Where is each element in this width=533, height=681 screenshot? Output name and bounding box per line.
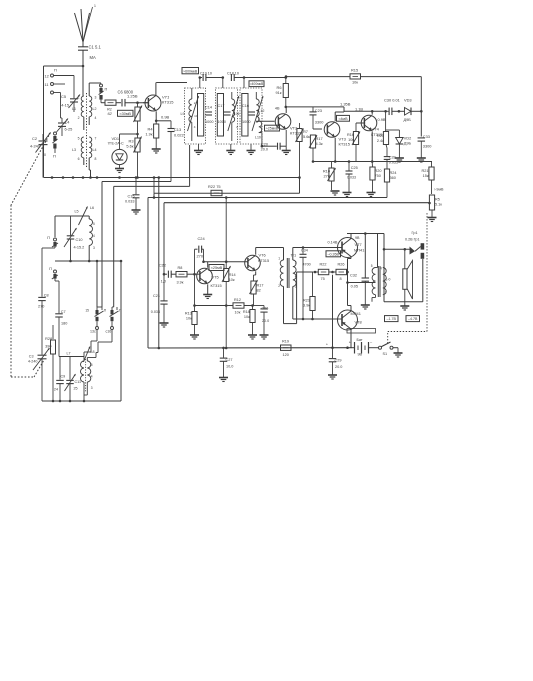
- svg-text:2: 2: [236, 125, 238, 129]
- wire line C y=202.7 (supply): [164, 203, 430, 275]
- svg-text:L4: L4: [93, 148, 97, 152]
- svg-text:R24: R24: [390, 171, 397, 175]
- svg-text:C1 5.1: C1 5.1: [89, 45, 102, 50]
- transistor VT5 KT315: [195, 268, 222, 288]
- svg-text:≈400мкВ: ≈400мкВ: [250, 82, 264, 86]
- measurement label -0.26V: [326, 241, 341, 257]
- svg-text:270: 270: [324, 174, 331, 179]
- svg-text:VT7: VT7: [355, 242, 362, 247]
- resistor R2 (AGC): [134, 103, 143, 134]
- svg-text:4-15.2: 4-15.2: [74, 246, 85, 250]
- svg-text:3: 3: [385, 291, 387, 295]
- band switch contact 15P: [84, 307, 107, 357]
- svg-text:3: 3: [93, 246, 95, 250]
- svg-text:10,0: 10,0: [226, 365, 233, 369]
- ferrite rod core (dotted): [86, 93, 88, 168]
- svg-text:1: 1: [94, 4, 96, 8]
- svg-text:C22: C22: [159, 263, 166, 268]
- svg-text:1000: 1000: [242, 120, 250, 124]
- capacitor C13 0.022: [168, 121, 184, 182]
- svg-text:20.0: 20.0: [261, 148, 268, 152]
- band switch contact 2 (lower): [49, 267, 59, 308]
- transformer Tr2 primary: [371, 264, 382, 295]
- IF transformer T1 winding L9: [181, 92, 199, 141]
- svg-text:1.35В: 1.35В: [340, 102, 351, 107]
- svg-text:0.9В: 0.9В: [378, 117, 386, 122]
- wire bottom supply rail y=347.7: [148, 346, 352, 349]
- svg-text:C3: C3: [29, 355, 34, 359]
- svg-text:C11: C11: [75, 380, 82, 384]
- inductor L1 (pins 1-2): [72, 50, 84, 130]
- transformer Tr2 core: [378, 266, 380, 297]
- wire line y=186.4 (band feed 2): [114, 145, 190, 307]
- wire AGC line A y=193.3: [154, 176, 301, 197]
- node antenna junction: [82, 65, 85, 68]
- svg-text:5: 5: [295, 261, 297, 265]
- wire Tr2 connections: [372, 234, 378, 302]
- svg-text:L10: L10: [255, 136, 261, 140]
- svg-text:10к: 10к: [244, 315, 250, 319]
- svg-text:4700: 4700: [303, 263, 311, 267]
- band switch contact (osc): [42, 236, 58, 295]
- svg-text:L6: L6: [90, 206, 94, 210]
- wire line B y=197.5: [148, 198, 387, 349]
- resistor R24 360: [384, 169, 396, 198]
- capacitor C19 10 (coupling): [200, 72, 223, 82]
- svg-text:4-240: 4-240: [28, 360, 37, 364]
- svg-text:≈4мВ: ≈4мВ: [338, 117, 348, 121]
- capacitor C28 0.033 (detector out): [371, 156, 398, 169]
- svg-text:VT8: VT8: [355, 320, 362, 325]
- svg-text:10к: 10к: [348, 138, 354, 142]
- svg-text:3: 3: [95, 96, 97, 100]
- capacitor C20 20.0 (emitter bypass): [261, 143, 287, 152]
- trimmer capacitor C10 4-15.2: [64, 216, 84, 261]
- node detector out: [420, 110, 423, 113]
- svg-text:R19: R19: [282, 340, 289, 344]
- resistor R23 2.4k: [377, 111, 389, 155]
- wire VT3 collector: [335, 112, 344, 121]
- capacitor C7 180: [55, 308, 67, 357]
- node VT5 collector: [202, 260, 247, 267]
- resistor R10 270: [323, 162, 340, 196]
- svg-text:R21: R21: [422, 169, 429, 173]
- svg-text:R18: R18: [243, 310, 250, 314]
- svg-text:Д9Б: Д9Б: [404, 117, 412, 122]
- switch S1: [370, 342, 403, 357]
- transformer Tr1 core: [287, 258, 289, 288]
- pin 11 (П connector): [45, 82, 66, 87]
- svg-text:L7: L7: [67, 352, 71, 356]
- svg-text:R15: R15: [351, 67, 358, 72]
- transformer Tr1 primary: [278, 253, 296, 289]
- svg-text:КТ315: КТ315: [162, 100, 174, 105]
- wire gang dashed link: [11, 133, 51, 378]
- wire Tr1 sec5 to VT7 base: [293, 248, 342, 261]
- svg-text:1-0: 1-0: [386, 278, 391, 282]
- svg-text:R22: R22: [320, 263, 327, 267]
- capacitor C6 6800: [118, 90, 149, 107]
- wire T1 top to C19: [192, 76, 201, 92]
- resistor R28 390: [45, 325, 55, 401]
- node VT3 base / R17: [313, 128, 322, 130]
- svg-text:C21: C21: [153, 294, 160, 298]
- wire oscillator bottom bus y=401: [42, 261, 121, 402]
- wire VT1 collector: [156, 83, 187, 96]
- svg-text:270: 270: [197, 254, 204, 259]
- IF transformer T1 core: [198, 94, 204, 137]
- wire speaker loop: [383, 234, 423, 302]
- wire R15 down: [420, 77, 422, 112]
- svg-text:5: 5: [93, 222, 95, 226]
- svg-text:C23: C23: [315, 108, 322, 113]
- resistor R22 75 (line A): [208, 184, 222, 196]
- wire bias node to supply rail: [332, 275, 334, 348]
- svg-text:VD2: VD2: [404, 137, 411, 141]
- svg-text:2: 2: [278, 284, 280, 288]
- svg-text:360: 360: [390, 176, 396, 180]
- svg-text:4.3к: 4.3к: [316, 141, 323, 146]
- transistor VT8 MP41 (PNP): [338, 310, 362, 330]
- svg-text:13с: 13с: [90, 330, 96, 334]
- svg-text:МП41: МП41: [351, 311, 361, 316]
- wire L10 to VT2 base: [256, 120, 275, 122]
- svg-text:VD1: VD1: [112, 136, 120, 141]
- svg-text:⊦9мВ: ⊦9мВ: [435, 188, 445, 192]
- node T2 top: [222, 76, 225, 88]
- capacitor C14 1000: [205, 106, 213, 125]
- resistor R18 10k: [243, 306, 257, 340]
- inductor L7 (osc coil 2): [59, 347, 95, 363]
- svg-text:15к: 15к: [423, 174, 429, 178]
- svg-text:C16: C16: [242, 104, 249, 108]
- coupling winding L10: [255, 118, 262, 146]
- svg-text:C19 10: C19 10: [200, 72, 212, 76]
- svg-text:L5: L5: [75, 210, 79, 214]
- capacitor C30 0.01: [384, 98, 400, 116]
- connector X1 (phone jack): [410, 243, 425, 302]
- svg-text:П: П: [54, 68, 57, 73]
- svg-text:C7: C7: [61, 310, 66, 314]
- measurement label -1.7V: [385, 316, 399, 322]
- svg-text:5.1к: 5.1к: [435, 203, 442, 207]
- resistor R7 5.6k (AGC trimmer): [296, 123, 311, 178]
- ground T3: [247, 144, 256, 155]
- wire ground rail y=161.5: [313, 161, 432, 163]
- wire VT2 collector to VT3 collector: [313, 102, 351, 113]
- svg-text:3300: 3300: [315, 120, 324, 125]
- measurement label 600uV: [182, 68, 199, 74]
- svg-text:20.0: 20.0: [262, 319, 269, 323]
- svg-text:10к: 10к: [186, 317, 192, 321]
- svg-text:C10: C10: [76, 238, 83, 242]
- svg-text:КТ315: КТ315: [258, 258, 269, 263]
- ground speaker: [400, 302, 409, 310]
- svg-text:L9: L9: [181, 112, 185, 116]
- wire bias row y=272: [297, 271, 314, 273]
- svg-text:0.033: 0.033: [389, 161, 398, 165]
- svg-text:–0.26В: –0.26В: [328, 252, 340, 256]
- svg-text:≈600мкВ: ≈600мкВ: [183, 69, 198, 73]
- svg-text:4: 4: [95, 116, 97, 120]
- capacitor C18 10 (coupling): [227, 72, 286, 82]
- ground T2: [226, 144, 235, 155]
- wire feedback y=305.5: [195, 304, 234, 307]
- svg-text:–1.7В: –1.7В: [387, 317, 397, 321]
- resistor R17a 82 (VT6 emitter): [250, 271, 264, 305]
- resistor R26 8.2 (bias): [331, 263, 349, 282]
- svg-text:3.9к: 3.9к: [303, 304, 310, 308]
- svg-text:C30 0.01: C30 0.01: [384, 98, 400, 103]
- svg-text:C4: C4: [65, 120, 71, 125]
- measurement label 25uV: [265, 125, 280, 131]
- svg-text:≈25мВ: ≈25мВ: [211, 266, 223, 270]
- inductor L8 winding: [84, 353, 98, 396]
- svg-text:2: 2: [78, 116, 80, 120]
- resistor R3 5.6k: [126, 134, 141, 179]
- svg-text:1: 1: [278, 257, 280, 261]
- svg-text:120: 120: [283, 353, 289, 357]
- wire VT4 collector node: [344, 110, 387, 115]
- svg-text:75: 75: [321, 277, 325, 281]
- svg-text:3.9к: 3.9к: [177, 281, 184, 285]
- svg-text:4: 4: [93, 234, 95, 238]
- svg-text:C5: C5: [61, 94, 66, 99]
- band switch contact (L2 out): [99, 84, 108, 103]
- svg-text:25: 25: [74, 387, 78, 391]
- node VD3 in: [398, 110, 401, 113]
- svg-text:390: 390: [45, 345, 51, 349]
- wire VT4 emitter: [371, 131, 373, 161]
- inductor L3 (pins 5-6): [72, 137, 84, 166]
- svg-text:C32: C32: [350, 274, 357, 278]
- svg-text:MA: MA: [90, 55, 96, 60]
- svg-text:R16: R16: [347, 133, 354, 137]
- wire VT8 emitter/collector: [348, 302, 352, 348]
- svg-text:R8: R8: [178, 266, 183, 270]
- svg-text:C15: C15: [128, 195, 135, 199]
- svg-text:C33: C33: [423, 134, 430, 139]
- svg-text:C8: C8: [44, 294, 49, 298]
- svg-text:R17: R17: [257, 284, 264, 288]
- svg-text:R5: R5: [435, 198, 440, 202]
- capacitor C16 1000: [242, 104, 255, 124]
- svg-text:10к: 10к: [229, 278, 235, 282]
- svg-text:≈30мВ: ≈30мВ: [120, 112, 132, 116]
- inductor L6 winding: [89, 216, 95, 261]
- svg-text:1000: 1000: [218, 120, 226, 124]
- svg-text:10к: 10к: [352, 80, 358, 85]
- svg-text:R13: R13: [185, 312, 192, 316]
- wire RF box left edge: [43, 66, 45, 178]
- svg-text:L1: L1: [72, 107, 76, 111]
- svg-text:11: 11: [45, 82, 49, 87]
- svg-text:5: 5: [371, 264, 373, 268]
- svg-text:R22 75: R22 75: [208, 184, 221, 189]
- measurement label 400uV: [249, 81, 264, 87]
- trimmer capacitor C5 4-15: [61, 92, 80, 112]
- svg-text:C20: C20: [261, 143, 268, 147]
- svg-text:1.25В: 1.25В: [127, 94, 138, 99]
- svg-text:82: 82: [257, 289, 261, 293]
- svg-text:C34: C34: [301, 249, 308, 253]
- inductor L5 (osc top): [55, 206, 94, 237]
- svg-text:1000: 1000: [205, 120, 213, 124]
- svg-text:≈25мкВ: ≈25мкВ: [266, 127, 279, 131]
- capacitor C26 20.0: [253, 306, 270, 340]
- trimmer capacitor C4 6-25: [57, 118, 73, 136]
- resistor R19 120: [281, 340, 292, 358]
- svg-text:R26: R26: [338, 263, 345, 267]
- variable capacitor C2 4-240: [30, 133, 51, 178]
- wire VT7 emitter node: [348, 257, 352, 302]
- node T3 top: [243, 76, 246, 88]
- svg-text:R14: R14: [229, 273, 236, 277]
- wire VT7 collector to top rail: [347, 232, 384, 238]
- IF transformer T2 core: [217, 94, 223, 137]
- svg-text:Tr1: Tr1: [291, 253, 297, 258]
- wire VT1 emitter / node: [155, 111, 171, 122]
- IF transformer T1 shield (dashed): [185, 88, 206, 144]
- svg-text:6-25: 6-25: [65, 127, 73, 132]
- svg-text:15: 15: [85, 309, 89, 313]
- svg-text:–4.7В: –4.7В: [408, 317, 418, 321]
- wire VT8 base row y=319: [293, 286, 342, 320]
- svg-text:C18 10: C18 10: [227, 72, 239, 76]
- capacitor C8 270: [38, 294, 49, 342]
- svg-text:с16: с16: [106, 330, 112, 334]
- resistor R6 91k: [275, 76, 288, 107]
- wire R1 to C6: [116, 102, 121, 104]
- svg-text:VT5: VT5: [212, 275, 219, 280]
- antenna W1: [75, 4, 97, 42]
- svg-text:+: +: [326, 343, 328, 347]
- band switch contact (C2): [53, 132, 58, 159]
- transistor VT6 KT315: [245, 253, 269, 271]
- measurement label 25mV (VT5): [209, 265, 224, 271]
- wire output node to Tr2: [346, 281, 375, 284]
- wire VT3 emitter to rail: [334, 138, 337, 163]
- svg-text:L2: L2: [93, 107, 97, 111]
- diode VD2 D9B: [386, 130, 412, 162]
- node bus junctions: [51, 176, 156, 199]
- svg-text:2.4к: 2.4к: [377, 139, 384, 143]
- capacitor C24 270: [195, 236, 206, 274]
- transistor VT3 KT315: [324, 122, 351, 147]
- svg-text:7ГЕ-2А-С: 7ГЕ-2А-С: [108, 142, 124, 146]
- wire speaker top feed: [404, 248, 407, 269]
- svg-text:12: 12: [45, 74, 49, 79]
- svg-text:C27: C27: [226, 358, 233, 362]
- svg-text:КТ315: КТ315: [211, 283, 222, 288]
- trimmer capacitor C11 25: [65, 357, 82, 402]
- svg-text:C13: C13: [174, 127, 181, 132]
- svg-text:C14: C14: [205, 106, 212, 110]
- svg-text:5.6к: 5.6к: [126, 144, 133, 149]
- node VT1 base: [136, 101, 139, 104]
- capacitor C23 3300: [310, 107, 325, 129]
- svg-text:4-240: 4-240: [30, 144, 41, 149]
- svg-text:VD3: VD3: [404, 98, 412, 103]
- resistor R13 10k: [185, 306, 199, 340]
- resistor R15 10k (AGC): [285, 67, 422, 84]
- svg-text:C29: C29: [335, 359, 342, 363]
- wire Tr1 primary bottom loop: [284, 272, 297, 324]
- svg-text:П: П: [47, 236, 50, 240]
- capacitor C22 1.0: [159, 263, 176, 284]
- svg-text:9В: 9В: [358, 353, 363, 357]
- diode VD3 D9B: [399, 98, 421, 123]
- capacitor C9 24: [54, 357, 65, 402]
- svg-text:3: 3: [91, 386, 93, 390]
- ground T1: [194, 144, 203, 155]
- IF transformer T3 shield (dashed): [240, 88, 262, 144]
- svg-text:1.1В: 1.1В: [355, 107, 363, 112]
- svg-text:4: 4: [91, 375, 93, 379]
- transistor VT1 KT315: [127, 94, 174, 120]
- resistor R4 1.9k: [145, 121, 160, 153]
- capacitor C34 4700: [300, 246, 311, 320]
- battery Bat 9V: [347, 329, 376, 357]
- svg-text:1: 1: [78, 96, 80, 100]
- core L7/L8 dotted: [85, 359, 87, 392]
- band switch contact 16P: [98, 307, 122, 353]
- measurement label -4.7V: [406, 316, 420, 322]
- svg-text:0.033: 0.033: [151, 310, 160, 314]
- svg-text:L11: L11: [234, 112, 240, 116]
- resistor R22a 75 (bias): [313, 263, 336, 282]
- mechanical link S1 (dashed): [388, 213, 427, 345]
- svg-text:П: П: [53, 154, 56, 159]
- transistor VT7 MP41 (PNP): [338, 236, 365, 258]
- wire RF box top: [44, 65, 84, 67]
- svg-text:10к: 10к: [235, 311, 241, 315]
- resistor R16 10k: [347, 123, 364, 162]
- svg-text:0.033: 0.033: [347, 176, 356, 180]
- svg-text:3300: 3300: [423, 144, 432, 149]
- svg-text:7: 7: [95, 137, 97, 141]
- resistor R21a 3.9k (bias low): [303, 272, 315, 319]
- svg-text:VT6: VT6: [259, 253, 266, 258]
- resistor R5 5.1k: [428, 195, 443, 222]
- svg-text:8: 8: [95, 157, 97, 161]
- capacitor C33 3300: [417, 111, 432, 162]
- svg-text:C26: C26: [262, 307, 269, 311]
- svg-text:КТ315: КТ315: [339, 142, 351, 147]
- svg-text:Гр1: Гр1: [412, 231, 418, 235]
- svg-text:П: П: [49, 267, 52, 271]
- variable capacitor C3 4-240: [28, 341, 50, 401]
- node VT5 emitter to R13: [193, 274, 196, 307]
- svg-text:C17: C17: [218, 104, 225, 108]
- inductor L7 winding: [81, 361, 84, 401]
- wire osc block bottom: [55, 260, 122, 263]
- svg-text:1.9к: 1.9к: [145, 132, 152, 137]
- IF transformer T3 core: [242, 94, 248, 137]
- resistor R1 62: [105, 100, 116, 116]
- svg-text:0.9В: 0.9В: [161, 115, 170, 120]
- loudspeaker Gr1: [403, 231, 420, 302]
- capacitor C29 20.0: [326, 343, 343, 380]
- svg-text:4: 4: [194, 125, 196, 129]
- inductor L2 (pins 3-4): [89, 83, 101, 125]
- measurement label 4mV: [337, 115, 350, 121]
- svg-text:П: П: [105, 87, 108, 92]
- IF transformer T2 winding L11: [228, 92, 240, 141]
- svg-text:L3: L3: [72, 148, 76, 152]
- svg-text:270: 270: [38, 305, 44, 309]
- svg-text:0.022: 0.022: [174, 133, 184, 138]
